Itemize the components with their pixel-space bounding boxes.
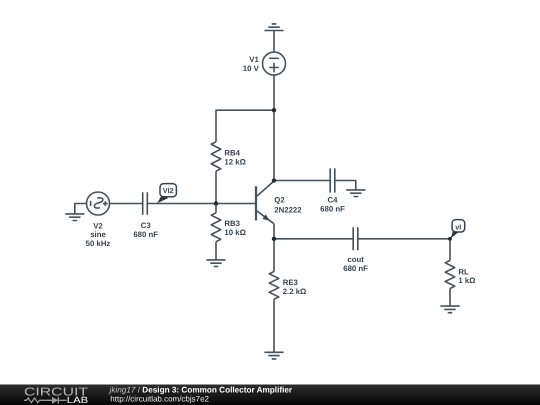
svg-text:1 kΩ: 1 kΩ bbox=[458, 276, 475, 285]
svg-text:2.2 kΩ: 2.2 kΩ bbox=[283, 287, 307, 296]
svg-text:50 kHz: 50 kHz bbox=[86, 239, 111, 248]
svg-text:2N2222: 2N2222 bbox=[274, 205, 302, 214]
svg-text:680 nF: 680 nF bbox=[320, 205, 345, 214]
svg-text:10 V: 10 V bbox=[243, 64, 260, 73]
svg-text:Q2: Q2 bbox=[274, 196, 285, 205]
svg-text:sine: sine bbox=[90, 230, 106, 239]
svg-text:RB3: RB3 bbox=[224, 219, 240, 228]
svg-text:10 kΩ: 10 kΩ bbox=[224, 228, 245, 237]
svg-text:vI: vI bbox=[455, 223, 461, 232]
svg-text:jking17 / Design 3: Common Col: jking17 / Design 3: Common Collector Amp… bbox=[109, 385, 293, 394]
svg-text:C4: C4 bbox=[328, 196, 339, 205]
svg-text:C3: C3 bbox=[141, 221, 152, 230]
svg-text:http://circuitlab.com/cbjs7e2: http://circuitlab.com/cbjs7e2 bbox=[110, 395, 209, 404]
svg-text:680 nF: 680 nF bbox=[133, 230, 158, 239]
svg-text:cout: cout bbox=[347, 255, 364, 264]
svg-text:RB4: RB4 bbox=[224, 149, 240, 158]
svg-text:RE3: RE3 bbox=[283, 278, 299, 287]
svg-text:V2: V2 bbox=[93, 221, 103, 230]
svg-text:680 nF: 680 nF bbox=[343, 264, 368, 273]
svg-text:12 kΩ: 12 kΩ bbox=[224, 158, 245, 167]
svg-text:VI2: VI2 bbox=[163, 186, 174, 195]
svg-text:V1: V1 bbox=[249, 55, 259, 64]
svg-text:LAB: LAB bbox=[67, 395, 88, 405]
